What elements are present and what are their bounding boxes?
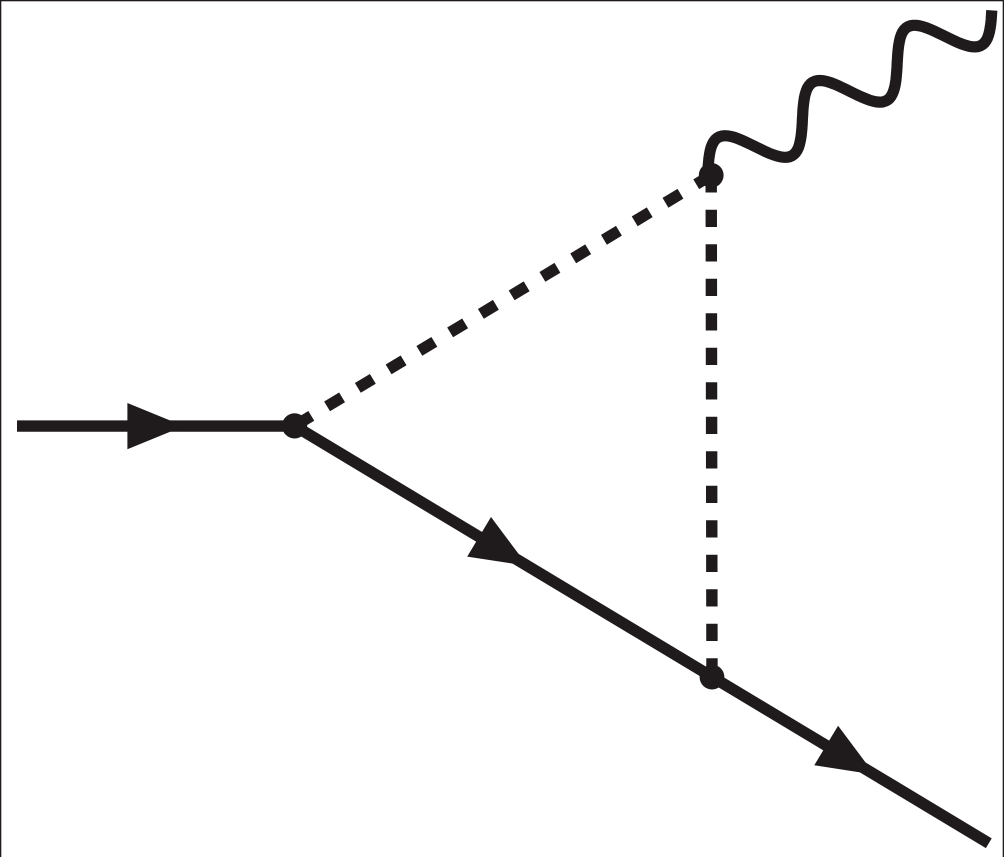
arrow on incoming fermion line <box>127 403 183 449</box>
wire: dashed scalar propagator from vertex A up to vertex B <box>295 175 712 426</box>
vertex dot B (top vertex) <box>699 163 724 188</box>
wire: dashed scalar propagator from vertex B down to vertex C <box>706 175 718 677</box>
vertex dot A (left vertex) <box>282 413 307 438</box>
arrow on internal fermion segment <box>467 517 527 566</box>
arrow on outgoing fermion leg <box>814 726 874 775</box>
vertex dot C (bottom vertex) <box>700 665 725 690</box>
wire: incoming fermion line (left external leg) <box>17 420 295 431</box>
wire: fermion line from vertex A through vertex C to bottom-right outgoing leg <box>295 426 989 843</box>
photon wavy line from vertex B to top-right corner <box>708 10 992 171</box>
